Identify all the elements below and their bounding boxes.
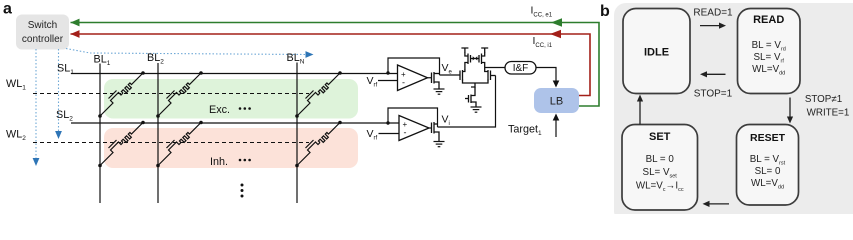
block LB bbox=[534, 88, 579, 113]
arrow red into switch controller bbox=[71, 30, 80, 38]
state IDLE bbox=[623, 9, 690, 94]
blue arrowhead down A bbox=[33, 158, 40, 166]
node gate bowtie bbox=[473, 56, 478, 60]
wire BL2 vertical bbox=[157, 63, 159, 203]
svg-text:SET: SET bbox=[649, 131, 671, 143]
memristor cell R1N bbox=[295, 71, 342, 118]
op-amp U1 bbox=[398, 65, 428, 91]
svg-text:READ=1: READ=1 bbox=[693, 7, 733, 18]
arrow red mid-line bbox=[550, 30, 561, 39]
svg-text:WRITE=1: WRITE=1 bbox=[807, 108, 850, 119]
svg-text:LB: LB bbox=[550, 96, 563, 108]
wire Vi to diff pair bbox=[438, 76, 496, 128]
svg-text:I&F: I&F bbox=[513, 63, 529, 74]
ground G2 bbox=[434, 142, 445, 147]
transistor Q1 pmos left bbox=[465, 53, 479, 70]
arrowhead into LB top bbox=[553, 81, 560, 88]
memristor cell R22 bbox=[156, 121, 203, 168]
state READ bbox=[738, 9, 801, 94]
ground G1 bbox=[434, 89, 445, 94]
transistor M2 bbox=[432, 122, 440, 141]
svg-text:Exc.: Exc. bbox=[209, 104, 230, 116]
wire BL1 vertical bbox=[99, 64, 101, 204]
svg-text:-: - bbox=[404, 128, 407, 138]
svg-text:controller: controller bbox=[22, 34, 64, 45]
memristor cell R21 bbox=[98, 121, 145, 168]
svg-text:Switch: Switch bbox=[28, 20, 57, 31]
svg-text:READ: READ bbox=[753, 14, 784, 26]
svg-text:-: - bbox=[402, 78, 405, 88]
wire BLN vertical bbox=[296, 63, 298, 204]
supply VDD right bbox=[481, 48, 488, 53]
wire SL2 bbox=[71, 122, 399, 124]
wire U1 output bbox=[428, 77, 432, 79]
svg-text:Target1: Target1 bbox=[508, 124, 542, 138]
wire Vrf to U1 minus bbox=[378, 80, 398, 82]
arrow SET to IDLE bbox=[637, 95, 643, 125]
svg-text:BL = Vrd: BL = Vrd bbox=[752, 40, 786, 53]
svg-text:BL = 0: BL = 0 bbox=[646, 154, 675, 165]
svg-text:STOP≠1: STOP≠1 bbox=[805, 94, 842, 105]
blue control line WL column A bbox=[36, 49, 305, 159]
arrow READ to IDLE bbox=[700, 71, 726, 77]
wire Vrf to U2 minus bbox=[379, 133, 400, 135]
blue control line BL diagonal bbox=[66, 49, 90, 54]
arrow green into switch controller bbox=[71, 19, 80, 27]
transistor Q2 pmos right bbox=[479, 53, 485, 68]
supply VDD left bbox=[461, 48, 468, 53]
wire U2 feedback loop bbox=[388, 108, 438, 127]
blue arrowhead right BLN bbox=[306, 51, 314, 58]
svg-text:SL= 0: SL= 0 bbox=[755, 166, 781, 177]
wire I&F to LB bbox=[536, 68, 556, 82]
wire SL1 bbox=[71, 73, 398, 75]
switch controller box bbox=[16, 15, 69, 50]
arrow IDLE to READ bbox=[700, 23, 726, 29]
memristor cell R2N bbox=[295, 121, 342, 168]
arrowhead into LB bottom bbox=[553, 114, 560, 121]
arrow RESET to SET bbox=[703, 201, 730, 207]
svg-text:b: b bbox=[600, 3, 610, 20]
svg-text:Inh.: Inh. bbox=[210, 156, 228, 168]
wire mirror output bbox=[485, 67, 505, 69]
memristor cell R12 bbox=[156, 71, 203, 118]
panel b background card bbox=[614, 3, 853, 223]
svg-text:a: a bbox=[3, 1, 12, 18]
svg-text:RESET: RESET bbox=[750, 132, 786, 144]
wire Ve to diff pair bbox=[440, 74, 461, 76]
svg-text:SL= Vrf: SL= Vrf bbox=[754, 52, 785, 65]
memristor cell R11 bbox=[98, 71, 145, 118]
svg-text:IDLE: IDLE bbox=[644, 47, 669, 59]
op-amp U2 bbox=[399, 116, 429, 141]
transistor Q5 tail bbox=[465, 83, 476, 107]
pink shaded region Inh bbox=[104, 128, 358, 168]
green shaded region Exc bbox=[104, 79, 358, 119]
transistor Q3 nmos left bbox=[460, 69, 488, 83]
arrow READ to RESET bbox=[787, 98, 793, 124]
arrow green mid-line bbox=[551, 18, 562, 27]
block I&F bbox=[505, 62, 536, 75]
wire WL1 dashed bbox=[33, 93, 309, 95]
blue arrowhead down B bbox=[55, 131, 62, 139]
svg-text:WL=Vc→Icc: WL=Vc→Icc bbox=[636, 181, 684, 194]
wire WL2 dashed bbox=[33, 142, 309, 144]
wire red feedback ICC,i1 bbox=[71, 34, 591, 96]
blue control line BL horizontal bbox=[90, 53, 305, 55]
transistor M1 bbox=[432, 72, 440, 89]
state SET bbox=[622, 125, 698, 211]
blue control line WL column B bbox=[58, 49, 60, 131]
state RESET bbox=[737, 125, 799, 206]
svg-text:STOP=1: STOP=1 bbox=[694, 88, 733, 99]
ellipsis Inh row bbox=[239, 159, 251, 162]
wire U1 feedback loop bbox=[388, 58, 440, 75]
wire green feedback ICC,e1 bbox=[71, 23, 600, 107]
wire Target to LB bbox=[555, 120, 557, 137]
node U2 feedback tap bbox=[386, 121, 389, 124]
transistor Q4 nmos right bbox=[485, 68, 496, 81]
ellipsis vertical bbox=[241, 184, 244, 198]
ellipsis Exc row bbox=[239, 107, 251, 110]
ground G3 bbox=[471, 107, 482, 112]
node U1 feedback tap bbox=[386, 71, 389, 74]
wire U2 output bbox=[429, 127, 432, 129]
